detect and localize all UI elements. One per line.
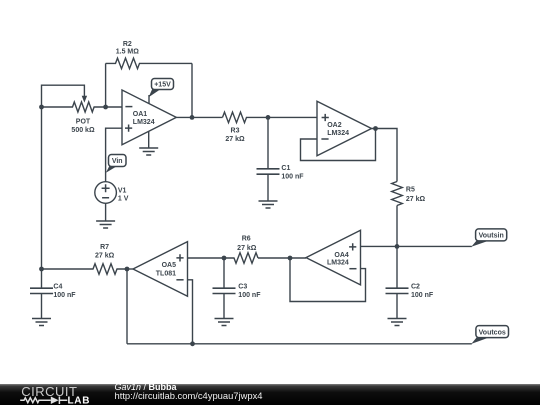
svg-text:OA4: OA4: [334, 252, 349, 259]
capacitor C4 100 nF: [30, 284, 76, 300]
wire: OA5 inverting input down to bottom rail: [188, 280, 193, 344]
resistor R2 1.5 MΩ: [106, 41, 192, 69]
svg-text:1.5 MΩ: 1.5 MΩ: [116, 49, 140, 56]
svg-text:Voutsin: Voutsin: [479, 233, 504, 240]
potentiometer POT 500 kΩ: [42, 96, 106, 134]
svg-text:27 kΩ: 27 kΩ: [95, 253, 115, 260]
wire: C2 bottom to ground: [396, 294, 398, 319]
svg-text:OA5: OA5: [162, 262, 177, 269]
node: R3 / C1 / OA2+ junction: [266, 115, 271, 120]
svg-text:100 nF: 100 nF: [411, 292, 434, 299]
net flag Vin: [106, 155, 126, 173]
svg-text:V1: V1: [118, 187, 127, 194]
node: OA2 output junction: [373, 126, 378, 131]
svg-text:R3: R3: [231, 128, 240, 135]
wire: POT wiper loop (left terminal up and over to wiper): [42, 85, 85, 107]
svg-text:+15V: +15V: [154, 82, 171, 89]
svg-text:OA1: OA1: [133, 111, 148, 118]
wire: bottom rail to Voutcos flag: [127, 343, 472, 345]
wire: OA5 non-inverting input to C3 junction: [188, 257, 225, 259]
svg-text:27 kΩ: 27 kΩ: [225, 136, 245, 143]
wire: V1 bottom to ground: [105, 203, 107, 221]
net flag Voutsin: [471, 229, 506, 247]
wire: OA5 output node down to bottom rail: [126, 269, 128, 344]
wire: C4 top lead: [41, 269, 43, 288]
op-amp OA4 LM324 (points left): [306, 230, 361, 285]
svg-text:100 nF: 100 nF: [53, 292, 76, 299]
svg-text:C1: C1: [281, 165, 290, 172]
svg-text:C2: C2: [411, 284, 420, 291]
svg-text:LM324: LM324: [133, 119, 155, 126]
svg-text:27 kΩ: 27 kΩ: [406, 196, 426, 203]
resistor R6 27 kΩ: [224, 236, 258, 264]
op-amp OA1 LM324: [122, 90, 176, 145]
node: POT / R2 / OA1- junction: [103, 105, 108, 110]
node: OA1 output junction: [190, 115, 195, 120]
wire: OA4 output to R6: [258, 257, 306, 259]
capacitor C2 100 nF: [386, 284, 434, 300]
svg-text:LAB: LAB: [68, 395, 91, 405]
svg-text:C3: C3: [238, 284, 247, 291]
node: OA5 feedback junction on bottom rail: [190, 341, 195, 346]
node: R6 / OA4 output junction: [288, 256, 293, 261]
wire: OA5 output to R7 node: [127, 268, 133, 270]
node: C4 / R7 junction: [39, 267, 44, 272]
svg-text:http://circuitlab.com/c4ypuau7: http://circuitlab.com/c4ypuau7jwpx4: [115, 390, 263, 401]
svg-text:100 nF: 100 nF: [281, 173, 304, 180]
node: C3 / R6 / OA5+ junction: [222, 256, 227, 261]
wire: OA1 negative supply pin: [148, 131, 150, 148]
svg-text:C4: C4: [53, 284, 62, 291]
ground: C1 ground: [259, 201, 278, 208]
ground: C2 ground: [388, 319, 407, 326]
svg-text:27 kΩ: 27 kΩ: [237, 245, 257, 252]
wire: C4 bottom to ground: [41, 294, 43, 319]
ground: C3 ground: [215, 319, 234, 326]
wire: R3 to OA2 non-inverting input: [268, 116, 317, 118]
wire: C1 bottom to ground: [267, 174, 269, 201]
wire: junction up to R2 left lead: [105, 63, 107, 107]
wire: R2 right lead down to OA1 output node: [191, 63, 193, 117]
wire: junction down to C1: [267, 117, 269, 168]
voltage source V1 1 V: [95, 182, 129, 204]
wire: OA1 output to R3: [176, 116, 222, 118]
svg-text:R6: R6: [242, 236, 251, 243]
node: POT left terminal junction: [39, 105, 44, 110]
ground: C4 ground: [32, 319, 51, 326]
ground: OA1 supply ground: [139, 148, 158, 155]
node: R5 / OA4+ / Voutsin junction: [395, 244, 400, 249]
wire: C3 bottom to ground: [223, 294, 225, 319]
ground: V1 ground: [96, 221, 115, 228]
wire: junction down to C3: [223, 258, 225, 288]
op-amp OA2 LM324: [317, 101, 372, 155]
wire: OA1 positive supply pin: [148, 95, 150, 104]
svg-text:TL081: TL081: [156, 271, 176, 278]
svg-text:R2: R2: [123, 41, 132, 48]
svg-text:Vin: Vin: [112, 158, 123, 165]
node: R7 / OA5 output junction: [125, 267, 130, 272]
svg-text:1 V: 1 V: [118, 196, 129, 203]
capacitor C1 100 nF: [257, 165, 305, 180]
svg-text:OA2: OA2: [327, 122, 342, 129]
svg-text:POT: POT: [76, 118, 91, 125]
resistor R3 27 kΩ: [223, 112, 269, 143]
svg-text:LM324: LM324: [327, 130, 349, 137]
wire: left bus vertical (POT left terminal down to C4/R7 node): [41, 107, 43, 269]
wire: OA2 output right and down to R5: [372, 129, 398, 182]
logo resistor squiggle and diode: [20, 397, 67, 405]
wire: OA4 non-inverting input row to Voutsin flag: [361, 245, 472, 247]
svg-text:500 kΩ: 500 kΩ: [71, 127, 95, 134]
svg-text:LM324: LM324: [327, 260, 349, 267]
wire: OA2 feedback (output to inverting input): [301, 129, 376, 161]
svg-text:100 nF: 100 nF: [238, 292, 261, 299]
footer bar: [0, 384, 540, 405]
wire: POT right terminal to OA1 inverting input: [106, 106, 122, 108]
wire: V1 up to OA1 non-inverting input: [106, 128, 122, 182]
svg-text:Voutcos: Voutcos: [479, 329, 506, 336]
net flag Voutcos: [471, 326, 508, 344]
wire: R5 bottom to Voutsin row: [396, 206, 398, 247]
svg-text:R5: R5: [406, 186, 415, 193]
capacitor C3 100 nF: [213, 284, 262, 300]
resistor R7 27 kΩ: [42, 244, 128, 275]
op-amp OA5 TL081 (points left): [133, 242, 188, 297]
svg-text:R7: R7: [100, 244, 109, 251]
resistor R5 27 kΩ: [392, 182, 426, 206]
wire: OA4 feedback (inverting input loop to output node): [290, 258, 366, 302]
wire: junction down to C2: [396, 246, 398, 288]
net flag +15V: [149, 79, 174, 98]
